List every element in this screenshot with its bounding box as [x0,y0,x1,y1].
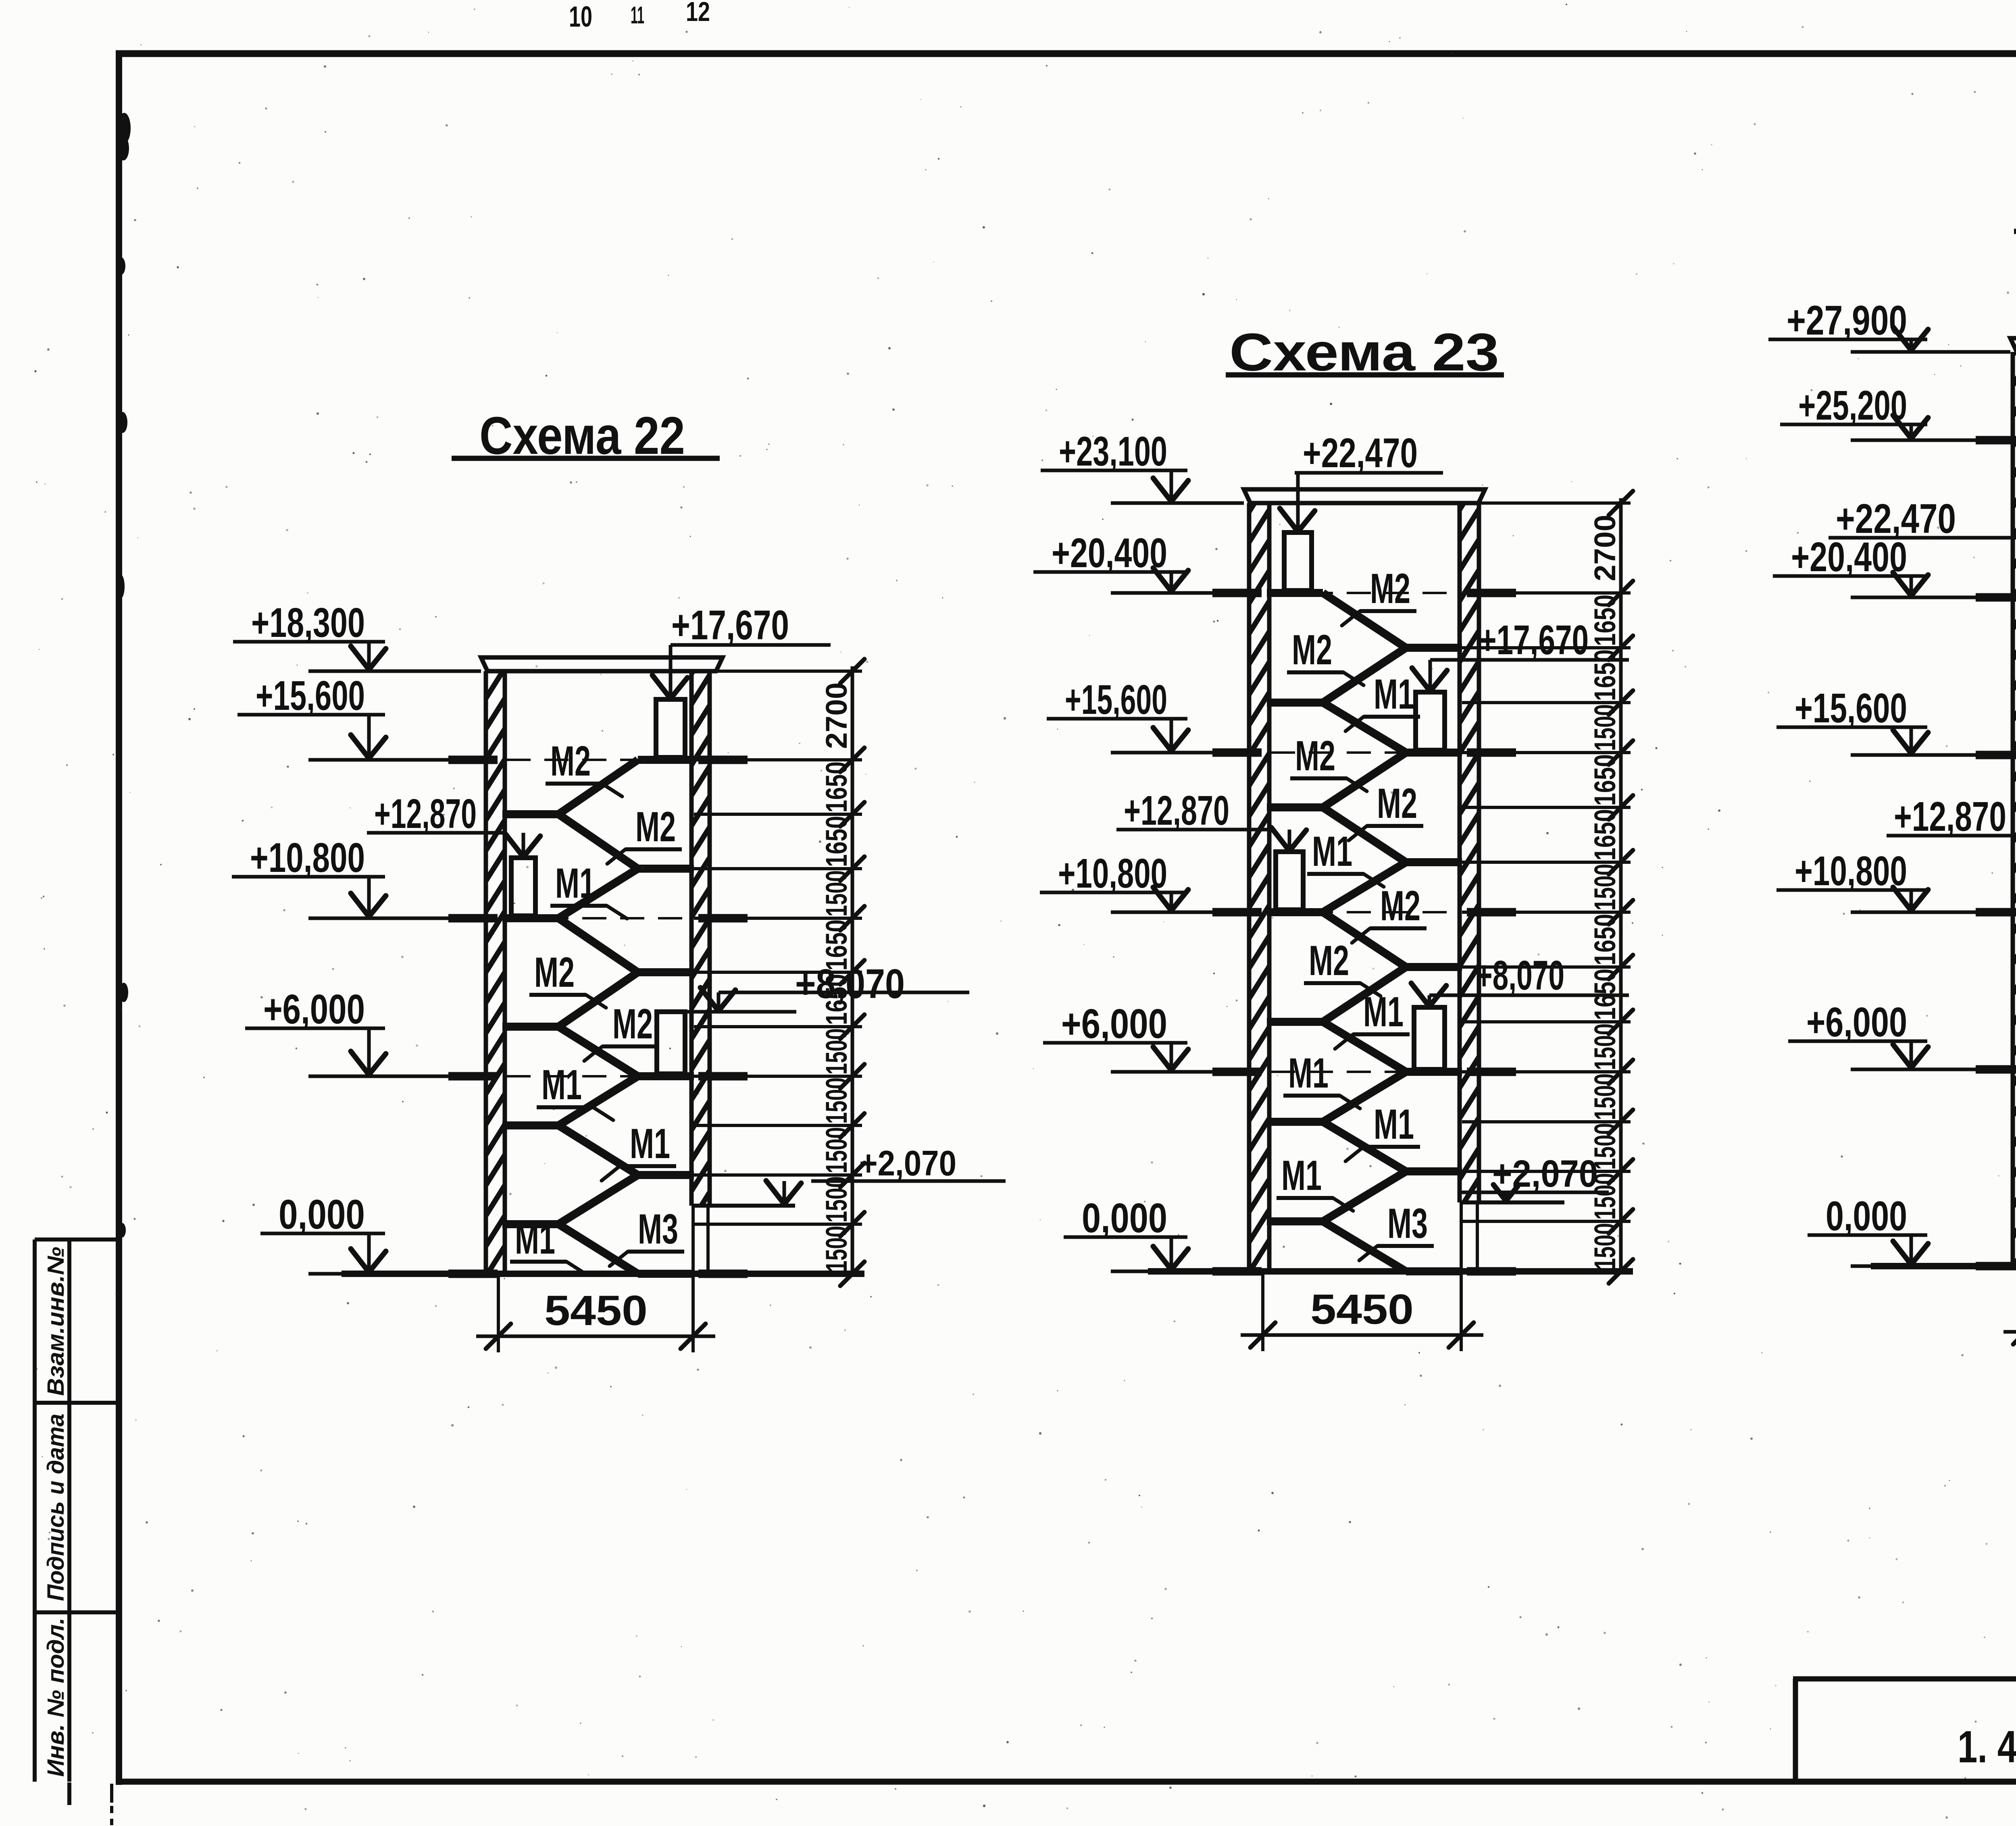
svg-text:+27,900: +27,900 [1787,297,1907,343]
svg-text:М1: М1 [1281,1152,1322,1199]
stairwell Схема 22 [232,406,1006,1352]
svg-text:1500: 1500 [820,870,853,917]
right wall (hatched, door opening at bottom) Схема 23 [1460,503,1479,1202]
+2,070 door label Схема 22 [694,1204,795,1208]
svg-text:1650: 1650 [1588,809,1622,861]
svg-text:1. 4 2 0.1 — 2 5.0 — 1 — 2 7: 1. 4 2 0.1 — 2 5.0 — 1 — 2 7 [1958,1722,2016,1772]
top cap slab Схема 22 [481,657,723,671]
svg-text:1500: 1500 [1588,704,1622,751]
svg-text:М2: М2 [1380,882,1420,930]
sheet frame border [116,50,122,1785]
svg-text:М2: М2 [1292,626,1332,674]
marks below bottom border [67,1782,71,1805]
svg-text:М3: М3 [638,1206,678,1253]
svg-text:2700: 2700 [1588,515,1622,581]
svg-text:М1: М1 [1363,988,1404,1036]
svg-text:1500: 1500 [1588,1023,1622,1070]
svg-text:10: 10 [569,1,592,33]
bottom dimension 5450 Схема 22 [497,1276,500,1352]
ground line 0.000 Схема 23 [1148,1268,1633,1275]
svg-text:0,000: 0,000 [1082,1195,1167,1241]
svg-text:1650: 1650 [820,761,853,813]
scan artifacts: blobs on left border [118,113,131,144]
svg-text:1500: 1500 [820,1028,853,1075]
svg-text:+15,600: +15,600 [1065,676,1167,723]
svg-text:М1: М1 [630,1120,670,1167]
floor slabs marks Схема 24 [1976,436,2016,445]
svg-text:+10,800: +10,800 [250,834,365,881]
ground line 0.000 Схема 24 [1871,1263,2016,1269]
svg-text:5450: 5450 [544,1287,648,1334]
svg-text:+22,470: +22,470 [1303,430,1418,476]
svg-text:1500: 1500 [1588,1073,1622,1120]
svg-text:+18,300: +18,300 [251,599,365,646]
svg-text:11: 11 [631,2,644,29]
svg-text:М1: М1 [555,860,596,907]
left margin cells [33,1240,37,1782]
svg-text:+10,800: +10,800 [1058,850,1167,896]
floor slabs marks Схема 23 [1212,589,1262,597]
stair flights and landings Схема 22 [638,756,694,764]
left wall (hatched) Схема 24 [2013,352,2016,1266]
svg-text:+12,870: +12,870 [374,790,477,837]
svg-text:+20,400: +20,400 [1052,530,1167,576]
svg-text:1650: 1650 [1588,754,1622,806]
svg-text:+10,800: +10,800 [1795,848,1907,894]
svg-text:М2: М2 [635,803,676,851]
svg-text:Взам.инв.№: Взам.инв.№ [43,1247,69,1396]
svg-text:+17,670: +17,670 [671,602,789,648]
svg-text:М1: М1 [515,1216,555,1263]
stairwell Схема 24 [1768,179,2016,1348]
svg-text:1650: 1650 [1588,914,1622,965]
svg-text:М1: М1 [1312,828,1352,875]
svg-text:+6,000: +6,000 [1806,999,1907,1045]
floor slabs marks Схема 22 [448,756,498,764]
svg-text:М2: М2 [1309,937,1349,984]
svg-text:М2: М2 [1377,780,1417,827]
svg-text:+6,000: +6,000 [263,986,365,1032]
bottom dimension 5450 Схема 23 [1261,1274,1264,1351]
svg-text:+2,070: +2,070 [1492,1152,1598,1195]
svg-text:М3: М3 [1387,1200,1428,1247]
svg-text:+8,070: +8,070 [1476,952,1564,998]
svg-text:М2: М2 [550,738,591,785]
svg-text:+25,200: +25,200 [1798,382,1907,428]
left wall (hatched) Схема 22 [486,671,505,1274]
svg-text:1500: 1500 [1588,1223,1622,1270]
svg-text:+17,670: +17,670 [1479,617,1589,663]
top cap slab Схема 24 [2010,338,2016,352]
door openings (rects) Схема 23 [1284,532,1312,591]
ground line 0.000 Схема 22 [342,1271,864,1277]
svg-text:1500: 1500 [820,1077,853,1124]
svg-text:12: 12 [686,0,710,27]
svg-text:5450: 5450 [1310,1286,1414,1333]
svg-text:2700: 2700 [820,682,853,749]
stairwell Схема 23 [1033,322,1633,1351]
svg-text:1500: 1500 [820,1127,853,1173]
svg-text:1650: 1650 [820,816,853,867]
svg-text:+8,070: +8,070 [795,961,905,1007]
svg-text:1650: 1650 [1588,649,1622,701]
svg-text:М2: М2 [1370,565,1410,612]
door openings (rects) Схема 22 [656,699,685,757]
svg-text:1650: 1650 [1588,595,1622,646]
left wall (hatched) Схема 23 [1249,503,1269,1271]
svg-text:1500: 1500 [820,1226,853,1272]
svg-text:М2: М2 [534,949,575,996]
svg-text:+15,600: +15,600 [1795,685,1907,731]
+2,070 door label Схема 23 [1462,1200,1564,1204]
right wall (hatched, door opening at bottom) Схема 22 [691,671,710,1206]
svg-text:+23,100: +23,100 [1059,428,1167,474]
svg-text:+15,600: +15,600 [256,672,365,719]
top cap slab Схема 23 [1244,489,1485,503]
svg-text:М1: М1 [1374,1101,1414,1148]
dimension chain Схема 22 [851,666,854,1277]
svg-text:М1: М1 [541,1061,582,1108]
svg-text:0,000: 0,000 [279,1191,365,1237]
dimension chain Схема 23 [1619,498,1623,1275]
svg-text:М1: М1 [1374,671,1414,718]
svg-text:М1: М1 [1288,1050,1329,1097]
title block [1793,1676,2016,1682]
svg-text:М2: М2 [612,1000,653,1048]
svg-text:+2,070: +2,070 [859,1143,956,1183]
svg-text:1500: 1500 [820,1176,853,1223]
svg-text:Инв. № подл.: Инв. № подл. [43,1618,69,1777]
svg-text:Подпись и дата: Подпись и дата [43,1414,69,1601]
svg-text:0,000: 0,000 [1826,1193,1907,1239]
svg-text:+22,470: +22,470 [1836,495,1956,542]
svg-text:М2: М2 [1295,732,1335,780]
stair flights and landings Схема 23 [1267,589,1323,597]
svg-text:+12,870: +12,870 [1124,787,1229,834]
svg-text:+6,000: +6,000 [1061,1000,1167,1047]
svg-text:+12,870: +12,870 [1894,793,2006,840]
svg-text:1500: 1500 [1588,864,1622,911]
